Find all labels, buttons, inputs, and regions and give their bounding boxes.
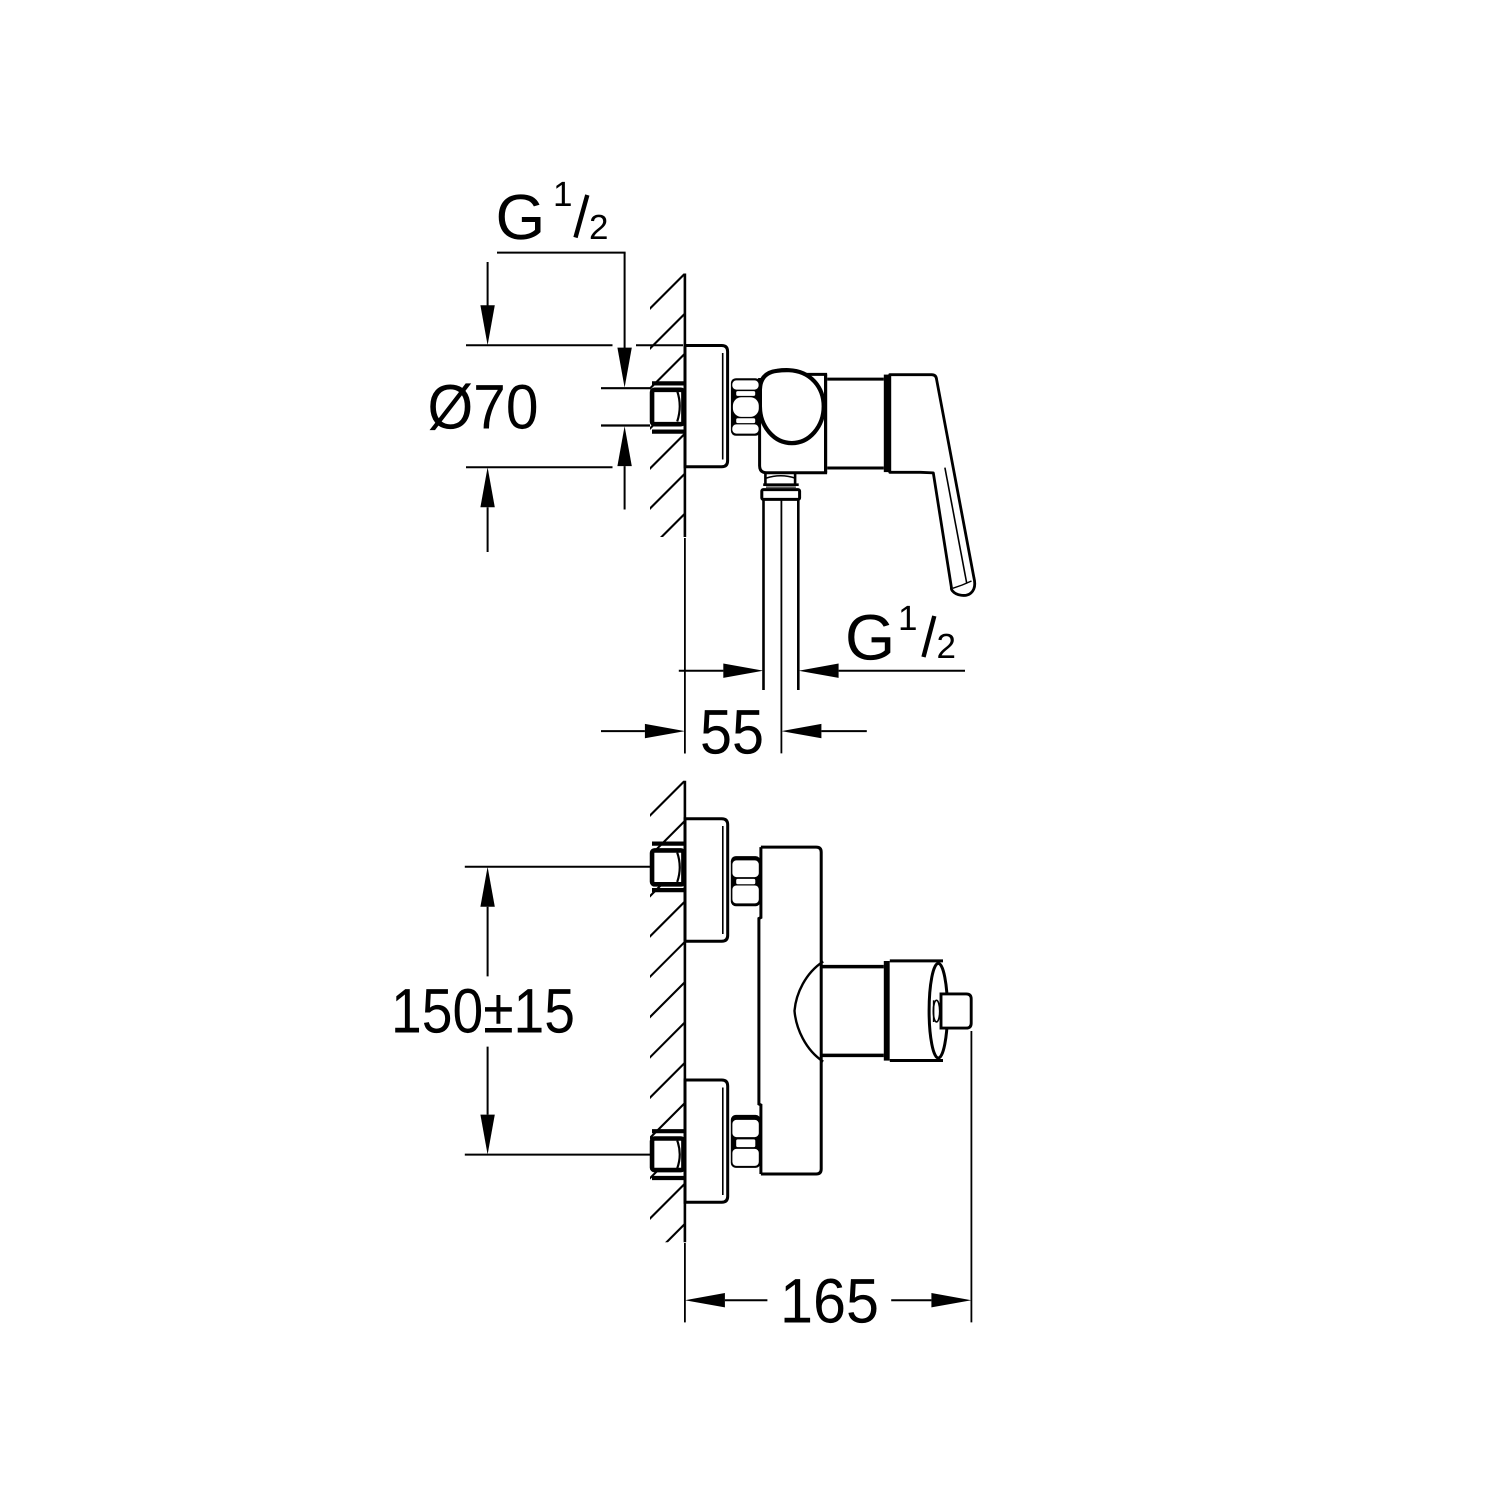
- wall extension line (top view): [684, 538, 686, 754]
- knob (bottom view): [890, 961, 948, 1061]
- svg-text:55: 55: [700, 698, 764, 768]
- union nuts (bottom view): [731, 856, 761, 1168]
- wall hatching (top view): [645, 234, 685, 554]
- joint bar (top view): [884, 375, 890, 473]
- union nut (top view): [731, 378, 761, 436]
- supply nipple square (top view): [652, 390, 683, 424]
- outlet seal ring (top view): [766, 486, 796, 488]
- svg-text:1: 1: [553, 175, 572, 214]
- svg-text:1: 1: [898, 599, 917, 638]
- lever handle cap + lever (top view): [890, 375, 975, 596]
- wall line (bottom view): [684, 781, 687, 1243]
- broach detail (bottom view): [933, 1000, 939, 1022]
- mixer body cartridge section (top view): [827, 379, 884, 468]
- outlet neck (top view): [763, 474, 799, 485]
- outlet collar (top view): [762, 490, 800, 500]
- dimension 150±15: [391, 867, 650, 1155]
- dimension G1/2 pipe (top view): [679, 664, 965, 678]
- outlet pipe (top view): [764, 500, 799, 754]
- wall line (top view): [684, 274, 687, 538]
- label G 1/2 (bottom of top view): [845, 599, 956, 674]
- mixer body (bottom view): [759, 846, 823, 1176]
- dimension 55: [601, 698, 867, 768]
- wall hatching (bottom view): [645, 781, 685, 1264]
- svg-text:2: 2: [937, 627, 956, 666]
- svg-text:G: G: [845, 602, 895, 674]
- svg-text:G: G: [496, 181, 546, 253]
- valve front slab (top view): [760, 374, 828, 472]
- escutcheon (top view): [685, 346, 728, 467]
- dimension 165: [685, 1031, 972, 1337]
- dimension leader G1/2 (top): [497, 253, 650, 510]
- svg-text:165: 165: [780, 1267, 879, 1337]
- supply nipple squares (bottom view): [652, 850, 683, 1170]
- stem (bottom view): [941, 994, 971, 1028]
- dimension Ø70: [428, 262, 684, 552]
- svg-text:Ø70: Ø70: [428, 373, 539, 443]
- valve cone transition (bottom view): [795, 962, 884, 1062]
- ball joint (top view): [760, 370, 824, 443]
- wall hole edges (bottom view): [652, 844, 684, 1178]
- escutcheons (bottom view): [685, 819, 728, 1202]
- svg-text:2: 2: [589, 208, 608, 247]
- svg-text:150±15: 150±15: [391, 977, 575, 1047]
- joint bar (bottom view): [884, 961, 890, 1061]
- label G 1/2 (top): [496, 175, 609, 253]
- wall hole edges (top view): [652, 383, 684, 431]
